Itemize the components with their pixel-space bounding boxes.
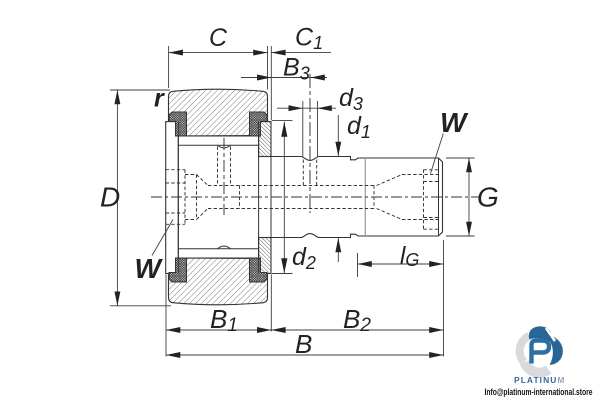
P glyph xyxy=(532,341,550,364)
lG dim xyxy=(358,263,444,265)
D ext lines xyxy=(110,89,170,91)
d2 dim line xyxy=(283,122,285,274)
centerline horizontal xyxy=(151,196,479,198)
seal right-top xyxy=(250,112,268,136)
seal right-bottom xyxy=(250,258,268,282)
C1 arrow xyxy=(271,50,285,56)
raceway lines bottom xyxy=(178,248,258,250)
svg-text:C: C xyxy=(209,24,228,52)
B3 dim xyxy=(241,77,327,79)
svg-text:G: G xyxy=(477,182,499,213)
stud left face xyxy=(177,122,179,274)
stud flange bottom part xyxy=(259,238,271,274)
svg-text:Info@platinum-international.st: Info@platinum-international.store xyxy=(485,387,593,398)
svg-text:B: B xyxy=(295,329,312,359)
logo mark xyxy=(520,326,563,372)
G dim arrows xyxy=(466,158,472,172)
G ext xyxy=(446,157,475,159)
shaft outline top xyxy=(271,157,443,238)
d1 arrows xyxy=(335,142,341,156)
W right leader xyxy=(431,134,444,174)
B1 arrows xyxy=(166,327,180,333)
raceway lines top xyxy=(178,135,258,137)
C dim xyxy=(169,52,268,54)
arrows xyxy=(114,50,472,358)
groove axis vertical xyxy=(309,74,311,213)
B dim xyxy=(166,354,444,356)
d3 arrows xyxy=(289,105,303,111)
svg-text:D: D xyxy=(100,182,120,213)
d2 arrows xyxy=(281,122,287,137)
D dim arrows xyxy=(114,90,120,104)
C1 dim xyxy=(271,52,331,54)
seal left-bottom xyxy=(169,258,187,282)
outer ring top section xyxy=(169,89,268,136)
axial hole xyxy=(208,185,374,187)
B2 arrows xyxy=(271,327,285,333)
C ext lines xyxy=(168,46,170,88)
C dim arrows xyxy=(169,50,183,56)
d3 dim xyxy=(277,107,336,109)
thread runout line xyxy=(364,159,366,235)
gray bottom blob xyxy=(525,362,549,373)
d1 arrow lines xyxy=(337,115,339,156)
bottom ext lines xyxy=(165,275,167,357)
D dim line xyxy=(116,90,118,306)
side plate (washer) left xyxy=(166,122,179,274)
d2 ticks xyxy=(272,120,293,122)
lube hole mouth chamfer arc xyxy=(218,145,231,148)
B dim arrows xyxy=(166,352,180,358)
lG arrows xyxy=(358,261,372,267)
B3 arrows xyxy=(257,75,271,81)
svg-text:W: W xyxy=(440,107,469,138)
radial hole bearing side xyxy=(217,147,219,186)
blue right crescent xyxy=(550,336,563,366)
right socket xyxy=(377,175,403,186)
seal left-top xyxy=(169,112,187,136)
lube hole axis vertical (bearing) xyxy=(223,138,225,215)
W left leader xyxy=(152,220,173,256)
blue top petal xyxy=(529,326,552,341)
svg-text:PLATINUM: PLATINUM xyxy=(514,375,566,385)
G dim xyxy=(468,158,470,236)
d3 ext xyxy=(302,101,304,158)
B1/B2 dim xyxy=(166,329,444,331)
flange left face line xyxy=(258,122,260,274)
svg-text:r: r xyxy=(154,85,165,113)
gray left crescent xyxy=(520,336,529,362)
radial hole at groove xyxy=(302,160,304,186)
hidden lines: left socket xyxy=(166,147,440,230)
outer ring bottom section xyxy=(169,258,268,305)
svg-text:W: W xyxy=(135,253,164,284)
thread chamfer vertical xyxy=(438,158,440,236)
flange right face line xyxy=(270,122,272,274)
stud flange top part xyxy=(259,122,271,157)
